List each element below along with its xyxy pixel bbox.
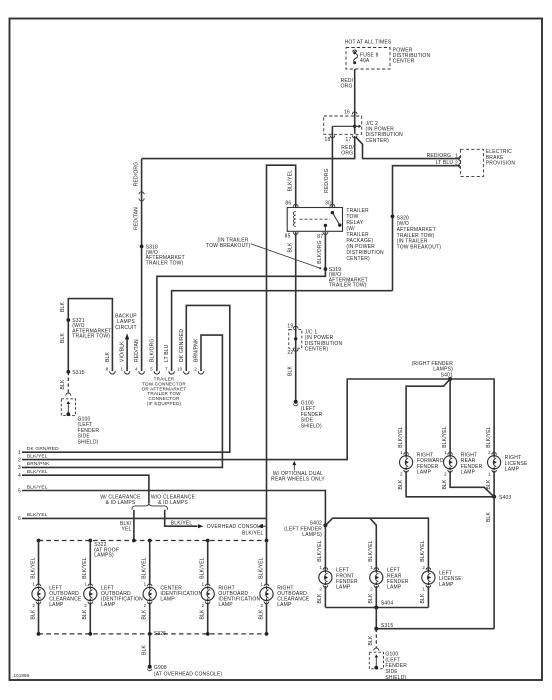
- svg-text:DK GRN/RED: DK GRN/RED: [179, 329, 185, 362]
- J/C1 internal junction dot: [294, 337, 297, 340]
- svg-text:7: 7: [165, 366, 168, 371]
- lamp RIGHT LICENSE LAMP: [488, 455, 501, 470]
- wire 3 BRN/PNK from edge to connector pin 2: [22, 335, 222, 467]
- wire 5 BLK/YEL from edge to S402 left fender lamps: [22, 491, 325, 526]
- svg-text:LAMP: LAMP: [336, 585, 351, 591]
- fuse FUSE 8 40A symbol: [353, 50, 358, 64]
- pin 1 of electric brake provision: [459, 156, 461, 161]
- svg-text:ORG: ORG: [341, 83, 353, 89]
- svg-text:& ID LAMPS: & ID LAMPS: [158, 500, 188, 506]
- svg-text:18: 18: [325, 137, 331, 143]
- svg-text:BLK/YEL: BLK/YEL: [287, 170, 293, 192]
- svg-text:1: 1: [18, 450, 21, 456]
- splice S320: [391, 215, 395, 219]
- svg-text:LAMP: LAMP: [387, 585, 402, 591]
- wire 6 BLK/YEL from edge joining clearance lamp feed: [22, 517, 267, 519]
- connector arc above ground G100 (right): [374, 648, 379, 651]
- wire BLK/YEL S401 to right forward fender lamp: [406, 379, 450, 455]
- junction connector J/C 2 (dashed box): [324, 116, 362, 134]
- svg-text:BRN/PNK: BRN/PNK: [194, 338, 200, 362]
- svg-text:(IF EQUIPPED): (IF EQUIPPED): [147, 401, 182, 406]
- power distribution center fuse box (dashed): [346, 48, 390, 70]
- svg-text:BLK: BLK: [60, 333, 66, 343]
- wire from overhead console (arrow) into roof lamp feed: [258, 524, 263, 528]
- wire BLK S321 chain to connector pin 8: [68, 299, 112, 372]
- svg-text:BLK/YEL: BLK/YEL: [30, 557, 36, 579]
- svg-text:LAMP: LAMP: [49, 602, 64, 608]
- junction dots on roof lamp bus: [37, 539, 269, 543]
- svg-text:86: 86: [285, 201, 291, 207]
- pin 22 of J/C1: [293, 349, 298, 351]
- svg-text:LAMP: LAMP: [218, 602, 233, 608]
- arrow to backup lamps circuit: [125, 333, 129, 339]
- svg-text:4: 4: [135, 366, 138, 371]
- inline connector symbol on RED wire: [139, 192, 144, 195]
- svg-text:REAR WHEELS ONLY: REAR WHEELS ONLY: [271, 477, 325, 483]
- svg-text:5: 5: [18, 488, 21, 494]
- svg-text:2: 2: [84, 603, 87, 608]
- svg-text:TOW BREAKOUT): TOW BREAKOUT): [397, 244, 442, 250]
- wire BLK CENTER IDENTIFICATION LAMP to bottom bus: [149, 602, 151, 634]
- relay switch contact 30-87: [324, 211, 342, 231]
- svg-text:PROVISION: PROVISION: [486, 160, 516, 166]
- svg-text:ORG: ORG: [341, 150, 353, 156]
- svg-text:1: 1: [144, 581, 147, 586]
- pin 18 of J/C2: [330, 135, 335, 137]
- relay coil: [294, 212, 296, 227]
- wire BLK S403 down to S315: [493, 497, 495, 629]
- svg-text:2: 2: [400, 471, 403, 476]
- wire BLK/YEL brace right leg to overhead console (arrow): [165, 510, 198, 526]
- pin 2 of electric brake provision: [459, 163, 461, 168]
- wire RED/ORG J/C2 pin 17 left branch to left drop: [142, 136, 355, 159]
- svg-text:1: 1: [455, 153, 458, 159]
- splice S402 (left fender lamps): [323, 523, 327, 527]
- wire BLK RIGHT OUTBOARD IDENTIFICATION LAMP to bottom bus: [207, 602, 209, 634]
- lamp LEFT REAR FENDER LAMP: [370, 570, 383, 585]
- svg-text:BLK/YEL: BLK/YEL: [142, 557, 148, 579]
- svg-text:2: 2: [370, 587, 373, 592]
- splice S403: [492, 495, 496, 499]
- ground point G100 at left fender side shield (center): [294, 400, 298, 404]
- svg-text:LAMP: LAMP: [101, 602, 116, 608]
- wire BLK dashed S315 to ground G100: [67, 372, 69, 393]
- svg-text:RED/ORG: RED/ORG: [324, 168, 330, 193]
- J/C2 internal bus with junction dot and arrow: [332, 125, 361, 128]
- pin 86 of relay: [293, 204, 298, 206]
- svg-text:1: 1: [202, 581, 205, 586]
- svg-text:(AT OVERHEAD CONSOLE): (AT OVERHEAD CONSOLE): [154, 671, 222, 677]
- wire RED/ORG fuse to J/C2 pin 16: [354, 69, 356, 134]
- svg-text:2: 2: [202, 603, 205, 608]
- wire LT BLU electric brake pin 2 to S320 drop: [393, 166, 461, 291]
- wire BLK RIGHT OUTBOARD CLEARANCE LAMP to bottom bus: [266, 602, 268, 634]
- svg-text:TRAILER TOW): TRAILER TOW): [72, 334, 110, 340]
- pin 17 of J/C2: [352, 135, 357, 137]
- lamp CENTER IDENTIFICATION LAMP: [143, 586, 156, 601]
- svg-text:2: 2: [422, 565, 425, 570]
- svg-text:BLK: BLK: [30, 609, 36, 619]
- wire BLK right license lamp to S403: [493, 471, 495, 497]
- svg-text:17: 17: [346, 137, 352, 143]
- svg-text:BLK: BLK: [60, 302, 66, 312]
- svg-text:TRAILER TOW): TRAILER TOW): [146, 260, 184, 266]
- svg-text:10: 10: [177, 366, 183, 371]
- svg-text:BLK/YEL: BLK/YEL: [82, 557, 88, 579]
- wire BLK S325 to G908: [149, 634, 151, 667]
- svg-text:85: 85: [285, 234, 291, 240]
- svg-text:1: 1: [422, 587, 425, 592]
- svg-text:BLK/YEL: BLK/YEL: [27, 453, 48, 459]
- svg-text:BLK/YEL: BLK/YEL: [486, 426, 492, 448]
- svg-text:VIO/BLK: VIO/BLK: [120, 341, 126, 362]
- svg-text:2: 2: [18, 457, 21, 463]
- svg-text:LAMPS): LAMPS): [302, 532, 322, 538]
- svg-text:BLK/YEL: BLK/YEL: [317, 540, 323, 562]
- svg-text:BLK: BLK: [200, 609, 206, 619]
- lamp RIGHT OUTBOARD IDENTIFICATION LAMP: [201, 586, 214, 601]
- svg-text:& ID LAMPS: & ID LAMPS: [106, 500, 136, 506]
- wire RED/ORG J/C2 pin 17 right branch to electric brake: [356, 138, 460, 159]
- lamp RIGHT REAR FENDER LAMP: [444, 455, 457, 470]
- ground G100 (left fender side shield, bottom): [369, 652, 383, 669]
- svg-text:SHIELD): SHIELD): [385, 675, 406, 681]
- svg-text:1: 1: [444, 450, 447, 455]
- roof lamp feed bus (dashed) S322: [39, 540, 267, 542]
- wire BLK/ORG relay pin 87 through S319 to connector pin 5: [157, 232, 326, 371]
- wire RED/ORG J/C2 pin 18 down to relay pin 30: [331, 126, 333, 207]
- svg-text:BLK/YEL: BLK/YEL: [398, 426, 404, 448]
- svg-text:BLK: BLK: [486, 479, 492, 489]
- svg-text:S401: S401: [441, 372, 453, 378]
- svg-text:RED/ORG: RED/ORG: [133, 162, 139, 187]
- svg-text:SHIELD): SHIELD): [301, 424, 322, 430]
- pin 87 of relay: [323, 232, 328, 234]
- svg-text:1: 1: [120, 366, 123, 371]
- junction dots on ground bus: [37, 632, 269, 636]
- svg-text:BLK: BLK: [486, 512, 492, 522]
- svg-text:CENTER: CENTER: [393, 59, 415, 65]
- splice S319: [324, 267, 328, 271]
- wire BLK below LEFT LICENSE LAMP: [427, 586, 429, 608]
- svg-text:G908: G908: [154, 665, 167, 671]
- svg-text:LT BLU: LT BLU: [164, 344, 170, 362]
- svg-text:2: 2: [32, 603, 35, 608]
- wire BLK dashed S315 to ground G100: [375, 629, 377, 648]
- wire BLK S315 horizontal to S403 drop: [376, 628, 494, 630]
- lamp RIGHT OUTBOARD CLEARANCE LAMP: [260, 586, 273, 601]
- svg-text:BLK: BLK: [420, 593, 426, 603]
- svg-text:8: 8: [106, 366, 109, 371]
- svg-text:RED/TAN: RED/TAN: [133, 207, 139, 230]
- svg-text:OVERHEAD CONSOLE: OVERHEAD CONSOLE: [207, 524, 264, 530]
- splice S318: [140, 245, 144, 249]
- splice S315 (right): [374, 627, 378, 631]
- svg-text:YEL: YEL: [122, 526, 132, 532]
- svg-text:BLK/YEL: BLK/YEL: [258, 557, 264, 579]
- svg-text:LAMP: LAMP: [461, 470, 476, 476]
- svg-text:1: 1: [319, 565, 322, 570]
- pin 5 of trailer tow connector (BLK/ORG): [154, 371, 160, 374]
- svg-text:19: 19: [287, 323, 293, 329]
- wire VIO/BLK connector pin 1 to backup lamps circuit: [126, 340, 128, 372]
- svg-text:S404: S404: [381, 600, 393, 606]
- lamp LEFT OUTBOARD CLEARANCE LAMP: [32, 586, 45, 601]
- svg-text:3: 3: [18, 465, 21, 471]
- pin 1 of trailer tow connector (VIO/BLK): [124, 371, 130, 374]
- svg-text:RED/TAN: RED/TAN: [134, 339, 140, 362]
- connector arc above ground G100: [66, 393, 71, 396]
- svg-text:LT BLU: LT BLU: [436, 160, 454, 166]
- wire BLK right rear fender lamp jog to S403: [450, 471, 494, 497]
- svg-text:BLK/YEL: BLK/YEL: [27, 484, 48, 490]
- trailer tow relay U1 (box): [287, 208, 342, 232]
- svg-text:BLK/YEL: BLK/YEL: [171, 520, 193, 526]
- svg-text:BLK: BLK: [142, 645, 148, 655]
- ground G100 (left fender side shield): [61, 399, 75, 416]
- wire BLK/YEL bus to RIGHT OUTBOARD IDENTIFICATION LAMP: [207, 541, 209, 586]
- wire 1 DK GRN/RED from edge to connector pin 10: [22, 305, 230, 452]
- svg-text:DK GRN/RED: DK GRN/RED: [27, 446, 59, 452]
- svg-text:1: 1: [260, 581, 263, 586]
- svg-text:S315: S315: [72, 370, 84, 376]
- svg-text:2: 2: [319, 587, 322, 592]
- lamp LEFT OUTBOARD IDENTIFICATION LAMP: [84, 586, 97, 601]
- svg-text:2: 2: [444, 471, 447, 476]
- pin 85 of relay: [293, 232, 298, 234]
- svg-text:2: 2: [260, 603, 263, 608]
- splice S401 (right fender lamps): [448, 377, 452, 381]
- pin 4 of trailer tow connector (RED/TAN): [139, 371, 145, 374]
- wire BLK LEFT OUTBOARD CLEARANCE LAMP to bottom bus: [38, 602, 40, 634]
- svg-text:4: 4: [18, 473, 21, 479]
- splice S315 (left): [66, 370, 70, 374]
- roof lamp ground bus (dashed) S325: [39, 633, 267, 635]
- wire BLK/YEL relay pin 86 feed from clearance-lamp drop: [267, 165, 296, 540]
- svg-text:22: 22: [287, 350, 293, 356]
- ground point G908 (AT OVERHEAD CONSOLE): [148, 665, 152, 669]
- pin 30 of relay: [330, 204, 335, 206]
- wire LT BLU horizontal to connector pin 7: [172, 291, 393, 371]
- svg-text:BLK: BLK: [82, 609, 88, 619]
- svg-text:1: 1: [84, 581, 87, 586]
- lamp RIGHT FORWARD FENDER LAMP: [400, 455, 413, 470]
- wire BLK below LEFT REAR FENDER LAMP: [375, 586, 377, 608]
- wire BLK/YEL bus to LEFT OUTBOARD CLEARANCE LAMP: [38, 541, 40, 586]
- svg-text:SHIELD): SHIELD): [78, 440, 99, 446]
- svg-text:40A: 40A: [360, 58, 370, 64]
- svg-text:TRAILER TOW): TRAILER TOW): [329, 283, 367, 289]
- svg-text:LAMP: LAMP: [160, 596, 175, 602]
- svg-text:BLK: BLK: [368, 635, 374, 645]
- svg-text:101898: 101898: [14, 673, 30, 678]
- wire BLK/YEL brace left leg to roof lamp bus: [133, 510, 135, 541]
- svg-text:1: 1: [400, 450, 403, 455]
- svg-text:HOT AT ALL TIMES: HOT AT ALL TIMES: [345, 40, 392, 46]
- wire BLK below LEFT FRONT FENDER LAMP: [324, 586, 326, 608]
- lamp LEFT FRONT FENDER LAMP: [319, 570, 332, 585]
- svg-text:2: 2: [488, 450, 491, 455]
- junction connector J/C 1 (dashed box): [289, 329, 302, 348]
- svg-text:TOW BREAKOUT): TOW BREAKOUT): [206, 243, 251, 249]
- svg-text:BLK: BLK: [258, 609, 264, 619]
- svg-text:CIRCUIT: CIRCUIT: [115, 325, 137, 331]
- svg-text:S403: S403: [499, 495, 511, 501]
- wire 4 BLK/YEL from edge to option brace: [22, 475, 149, 503]
- svg-text:BLK/YEL: BLK/YEL: [442, 426, 448, 448]
- wire BLK/YEL S402 to left license lamp: [325, 518, 428, 570]
- wire BLK S404 to S315: [375, 608, 377, 629]
- pin 7 of trailer tow connector (LT BLU): [169, 371, 175, 374]
- svg-text:BLK/YEL: BLK/YEL: [368, 540, 374, 562]
- svg-text:6: 6: [18, 516, 21, 522]
- svg-text:BLK/YEL: BLK/YEL: [200, 557, 206, 579]
- svg-text:BLK: BLK: [105, 352, 111, 362]
- pin 16 of J/C2: [352, 112, 357, 114]
- wire BLK/YEL bus to CENTER IDENTIFICATION LAMP: [149, 541, 151, 586]
- pin 2 of trailer tow connector (BRN/PNK): [198, 371, 204, 374]
- svg-text:LAMP: LAMP: [505, 467, 520, 473]
- option brace: [132, 503, 168, 510]
- pin 19 of J/C1: [293, 326, 298, 328]
- svg-text:S325: S325: [154, 631, 166, 637]
- svg-text:BLK: BLK: [287, 366, 293, 376]
- pin 10 of trailer tow connector (DK GRN/RED): [184, 371, 190, 374]
- svg-text:BLK: BLK: [398, 479, 404, 489]
- svg-text:BLK/YEL: BLK/YEL: [27, 512, 48, 518]
- svg-text:BLK/ORG: BLK/ORG: [317, 240, 323, 264]
- wire RED/ORG - RED/TAN drop to connector pin 4: [141, 159, 143, 371]
- svg-text:CENTER): CENTER): [346, 256, 370, 262]
- svg-text:87: 87: [317, 234, 323, 240]
- svg-text:LAMP: LAMP: [439, 582, 454, 588]
- svg-text:BLK/YEL: BLK/YEL: [242, 530, 264, 536]
- svg-text:BLK: BLK: [442, 479, 448, 489]
- wire BLK/YEL bus to RIGHT OUTBOARD CLEARANCE LAMP: [266, 541, 268, 586]
- svg-text:1: 1: [488, 471, 491, 476]
- svg-text:16: 16: [344, 110, 350, 116]
- svg-text:1: 1: [370, 565, 373, 570]
- wire BLK relay pin 85 down to J/C1 and G100: [295, 232, 297, 402]
- splice S404: [374, 606, 378, 610]
- svg-text:5: 5: [150, 366, 153, 371]
- wire BLK/YEL S401 to right rear fender lamp: [449, 379, 451, 455]
- svg-text:CENTER): CENTER): [366, 138, 390, 144]
- svg-text:30: 30: [325, 201, 331, 207]
- svg-text:BRN/PNK: BRN/PNK: [27, 461, 50, 467]
- svg-text:BLK: BLK: [142, 609, 148, 619]
- svg-text:BLK/YEL: BLK/YEL: [27, 469, 48, 475]
- svg-text:BLK: BLK: [60, 379, 66, 389]
- wire BLK bottom bus of left fender lamps: [325, 607, 428, 609]
- svg-text:BLK: BLK: [287, 242, 293, 252]
- splice S321: [66, 318, 70, 322]
- wire BLK/YEL S401 to right license lamp: [450, 379, 494, 455]
- svg-text:2: 2: [144, 603, 147, 608]
- svg-text:BLK: BLK: [368, 593, 374, 603]
- svg-text:1: 1: [32, 581, 35, 586]
- wire 2 BLK/YEL from edge to S401 right fender lamps: [22, 379, 450, 460]
- svg-text:RED/ORG: RED/ORG: [427, 153, 452, 159]
- wire BLK/YEL bus to LEFT OUTBOARD IDENTIFICATION LAMP: [89, 541, 91, 586]
- relay dashed actuation line: [300, 218, 331, 220]
- wire BLK right forward fender lamp to S403: [406, 471, 494, 497]
- svg-text:LAMP: LAMP: [277, 602, 292, 608]
- wire BLK/YEL S402 to left front fender lamp: [324, 525, 326, 570]
- svg-text:BLK/ORG: BLK/ORG: [150, 339, 156, 363]
- electric brake provision connector (dashed box): [460, 149, 483, 176]
- svg-text:LAMPS): LAMPS): [94, 553, 114, 559]
- wire BLK/YEL S402 jog to left rear fender lamp: [370, 518, 376, 570]
- svg-text:BLK/YEL: BLK/YEL: [420, 540, 426, 562]
- svg-text:CENTER): CENTER): [305, 347, 329, 353]
- wire BLK LEFT OUTBOARD IDENTIFICATION LAMP to bottom bus: [89, 602, 91, 634]
- pin 8 of trailer tow connector (BLK): [110, 371, 116, 374]
- lamp LEFT LICENSE LAMP: [422, 570, 435, 585]
- svg-text:2: 2: [194, 366, 197, 371]
- svg-text:LAMP: LAMP: [417, 470, 432, 476]
- svg-text:BLK: BLK: [317, 593, 323, 603]
